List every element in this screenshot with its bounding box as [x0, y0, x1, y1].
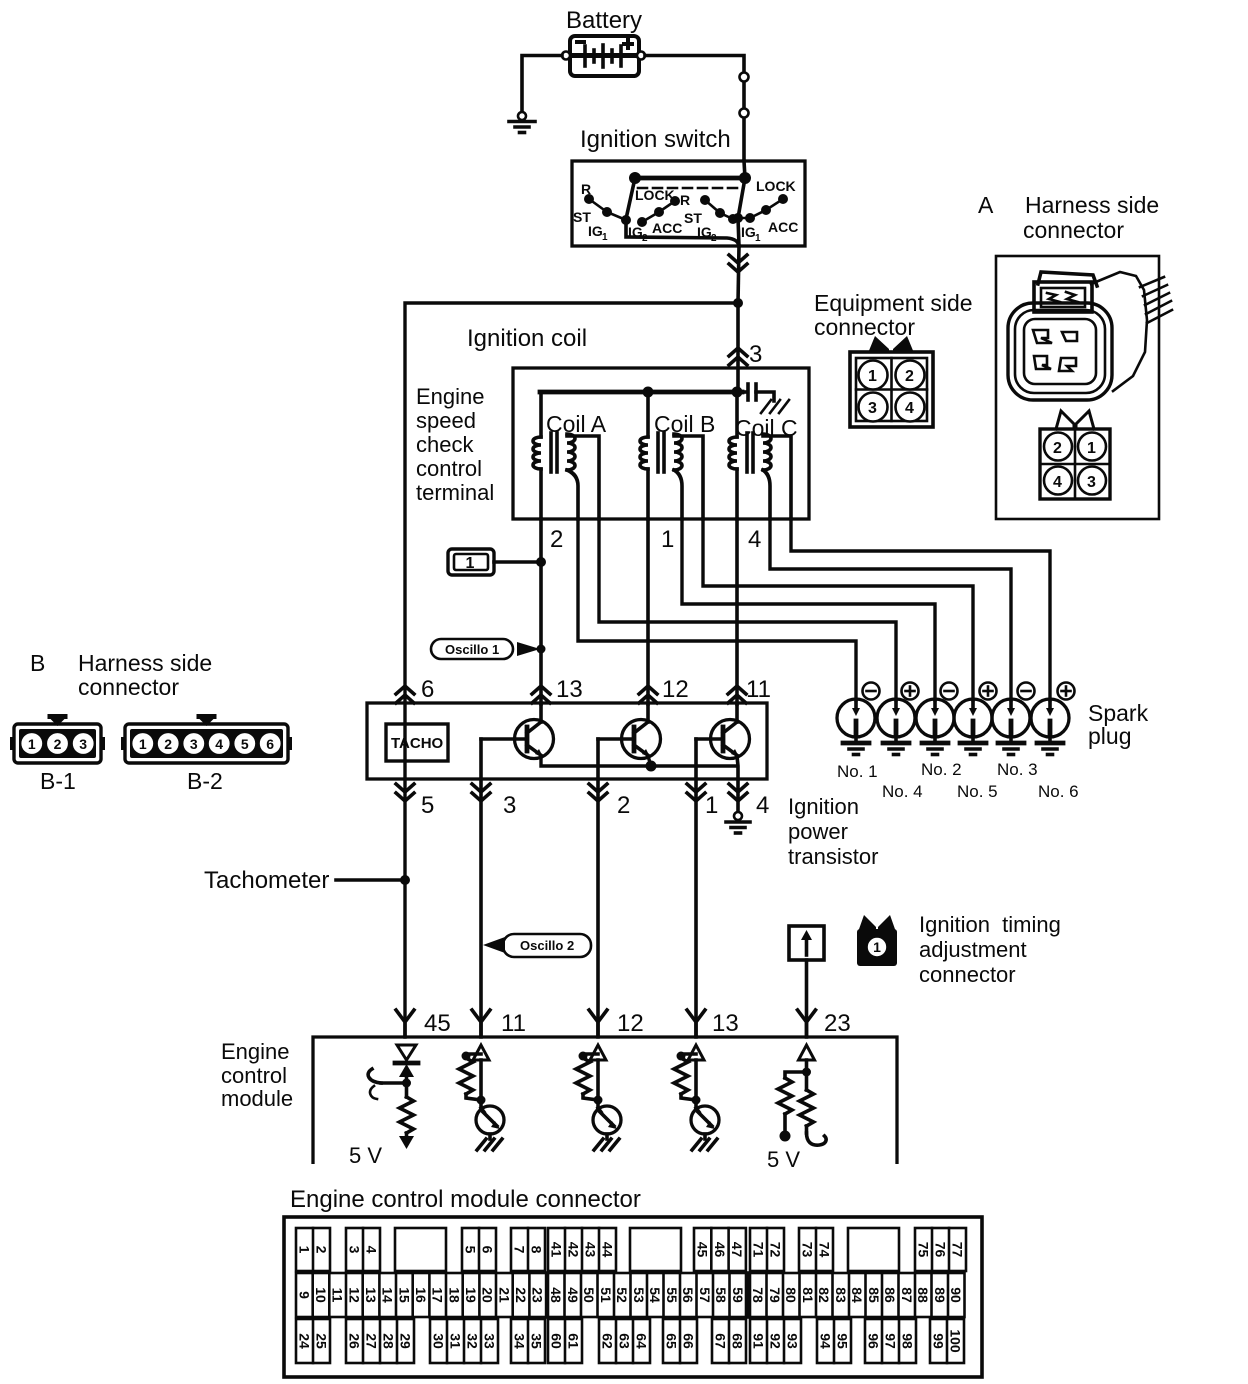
svg-text:5 V: 5 V	[349, 1143, 382, 1168]
svg-text:59: 59	[730, 1287, 746, 1303]
svg-text:Engine: Engine	[416, 384, 485, 409]
svg-text:4: 4	[748, 526, 761, 553]
svg-text:ACC: ACC	[652, 220, 682, 236]
wire coil secondary to spark plug No.2	[682, 519, 935, 700]
ignition power transistor box	[367, 703, 767, 779]
svg-text:81: 81	[800, 1287, 816, 1303]
svg-text:97: 97	[883, 1333, 899, 1349]
svg-text:4: 4	[756, 792, 769, 819]
connector chevrons pin 3	[472, 784, 490, 801]
svg-text:63: 63	[617, 1333, 633, 1349]
svg-text:6: 6	[480, 1246, 496, 1254]
B-2 label	[187, 768, 223, 794]
ignition coil label	[467, 325, 587, 352]
svg-text:85: 85	[866, 1287, 882, 1303]
svg-text:4: 4	[215, 736, 223, 752]
svg-text:32: 32	[465, 1333, 481, 1349]
svg-text:Engine: Engine	[221, 1039, 290, 1064]
svg-text:52: 52	[614, 1287, 630, 1303]
connector chevrons pin 4	[729, 784, 747, 801]
wire battery positive to ignition switch	[645, 56, 744, 161]
node emitter junction	[646, 761, 657, 772]
svg-text:99: 99	[931, 1333, 947, 1349]
svg-text:1: 1	[1087, 440, 1096, 457]
svg-text:80: 80	[783, 1287, 799, 1303]
svg-text:Battery: Battery	[566, 7, 642, 34]
svg-text:Coil A: Coil A	[546, 411, 607, 437]
wire Q2 collector	[646, 704, 650, 722]
svg-text:55: 55	[664, 1287, 680, 1303]
svg-text:84: 84	[849, 1287, 865, 1303]
oscillo 1 test point	[431, 639, 546, 659]
svg-text:2: 2	[550, 526, 563, 553]
coil pin 2 label	[550, 526, 563, 553]
wire timing connector to ECM pin 23	[805, 960, 809, 1037]
svg-text:64: 64	[634, 1333, 650, 1349]
svg-text:18: 18	[446, 1287, 462, 1303]
svg-text:1: 1	[466, 555, 475, 572]
svg-text:11: 11	[501, 1010, 526, 1037]
svg-text:4: 4	[1053, 474, 1062, 491]
svg-text:23: 23	[824, 1010, 851, 1037]
svg-text:power: power	[788, 819, 848, 844]
svg-text:56: 56	[680, 1287, 696, 1303]
pin 3 label	[749, 341, 762, 368]
wire switch to ignition coil	[736, 303, 740, 392]
svg-text:IG: IG	[697, 224, 712, 240]
wire coil secondary to spark plug No.1	[578, 519, 856, 700]
svg-text:61: 61	[566, 1333, 582, 1349]
svg-text:43: 43	[583, 1242, 599, 1258]
svg-text:28: 28	[381, 1333, 397, 1349]
wire base pin 3 down	[479, 739, 483, 1037]
svg-text:3: 3	[503, 792, 516, 819]
spark plug No. 6 label	[1038, 782, 1079, 801]
pin 2 label	[617, 792, 630, 819]
pin 6 label	[421, 676, 434, 703]
svg-text:2: 2	[711, 233, 717, 244]
svg-text:13: 13	[363, 1287, 379, 1303]
wire coil secondary to spark plug No.6	[791, 519, 1050, 700]
svg-text:12: 12	[662, 676, 689, 703]
polarity mark No. 5	[980, 683, 997, 700]
svg-text:54: 54	[647, 1287, 663, 1303]
svg-text:48: 48	[548, 1287, 564, 1303]
svg-text:96: 96	[866, 1333, 882, 1349]
spark plug No. 3	[992, 699, 1030, 755]
svg-text:4: 4	[905, 400, 914, 417]
svg-text:25: 25	[314, 1333, 330, 1349]
svg-text:No. 6: No. 6	[1038, 782, 1079, 801]
battery B1	[570, 36, 639, 76]
primary supply bus inside coil box	[540, 387, 743, 398]
svg-text:13: 13	[556, 676, 583, 703]
svg-text:14: 14	[380, 1287, 396, 1303]
pin 13 label	[556, 676, 583, 703]
capacitor C1	[742, 384, 774, 401]
svg-text:R: R	[581, 181, 591, 197]
svg-text:53: 53	[631, 1287, 647, 1303]
connector chevrons pin 1	[687, 784, 705, 801]
ECM pin 23 input circuit	[778, 1045, 826, 1145]
svg-text:A: A	[978, 192, 994, 218]
spark plug No. 5	[954, 699, 992, 755]
svg-text:29: 29	[398, 1333, 414, 1349]
svg-text:3: 3	[749, 341, 762, 368]
svg-text:100: 100	[948, 1329, 964, 1353]
svg-text:17: 17	[430, 1287, 446, 1303]
spark plug label	[1088, 700, 1149, 749]
ECM pin 12 label	[617, 1010, 644, 1037]
svg-text:72: 72	[768, 1242, 784, 1258]
connector chevrons pin 13 top	[532, 686, 550, 703]
svg-text:57: 57	[697, 1287, 713, 1303]
ignition switch contacts	[584, 194, 788, 227]
ECM driver circuit at pin 481	[459, 1045, 504, 1150]
battery negative terminal	[562, 52, 570, 60]
svg-text:2: 2	[642, 233, 648, 244]
svg-text:No. 5: No. 5	[957, 782, 998, 801]
transformer Coil A	[533, 392, 599, 519]
pin 12 label	[662, 676, 689, 703]
wire coil A pin 2 to transistor	[539, 519, 543, 704]
ground at battery	[509, 112, 535, 133]
svg-text:44: 44	[600, 1242, 616, 1258]
svg-text:1: 1	[602, 232, 608, 243]
svg-text:49: 49	[565, 1287, 581, 1303]
connector chevrons pin 6 top	[396, 686, 414, 703]
wire coil C pin 4 to transistor	[735, 519, 739, 704]
5V supply label right	[767, 1147, 800, 1172]
connector B-1	[10, 714, 105, 763]
svg-text:1: 1	[868, 368, 877, 385]
pin 11 label	[746, 676, 771, 703]
B harness side connector label	[30, 650, 212, 700]
svg-text:3: 3	[347, 1246, 363, 1254]
engine speed check control terminal label	[416, 384, 494, 505]
spark plug No. 4	[877, 699, 915, 755]
svg-text:79: 79	[767, 1287, 783, 1303]
coil pin 1 label	[661, 526, 674, 553]
svg-text:Harness side: Harness side	[78, 650, 212, 676]
svg-text:4: 4	[364, 1246, 380, 1254]
ignition switch battery feed bar	[629, 172, 751, 184]
svg-text:68: 68	[730, 1333, 746, 1349]
ECM driver circuit at pin 696	[674, 1045, 719, 1150]
svg-text:95: 95	[835, 1333, 851, 1349]
svg-text:10: 10	[313, 1287, 329, 1303]
emitter bus	[541, 756, 737, 766]
svg-text:speed: speed	[416, 408, 476, 433]
svg-text:terminal: terminal	[416, 480, 494, 505]
svg-text:51: 51	[598, 1287, 614, 1303]
ignition coil box	[513, 368, 809, 519]
svg-text:Tachometer: Tachometer	[204, 867, 329, 894]
wire battery negative to ground	[522, 56, 562, 114]
svg-text:98: 98	[900, 1333, 916, 1349]
pin 1 label	[705, 792, 718, 819]
engine control module connector box	[284, 1217, 982, 1377]
spark plug No. 1	[837, 699, 875, 755]
svg-text:module: module	[221, 1086, 293, 1111]
svg-text:66: 66	[681, 1333, 697, 1349]
spark plug No. 4 label	[882, 782, 923, 801]
svg-text:B: B	[30, 650, 45, 676]
connector B-2	[121, 714, 292, 763]
svg-text:Oscillo 1: Oscillo 1	[445, 642, 499, 657]
svg-text:12: 12	[346, 1287, 362, 1303]
TACHO unit	[386, 724, 448, 761]
svg-text:5: 5	[421, 792, 434, 819]
svg-text:2: 2	[617, 792, 630, 819]
svg-text:71: 71	[751, 1242, 767, 1258]
connector chevrons pin 3	[729, 348, 747, 365]
svg-text:62: 62	[600, 1333, 616, 1349]
5V supply label left	[349, 1143, 382, 1168]
ECM pin 13 label	[712, 1010, 739, 1037]
svg-text:connector: connector	[1023, 217, 1124, 243]
svg-text:Equipment side: Equipment side	[814, 290, 973, 316]
svg-text:77: 77	[950, 1242, 966, 1258]
svg-text:88: 88	[915, 1287, 931, 1303]
spark plug No. 1 label	[837, 762, 878, 781]
ECM driver circuit at pin 598	[576, 1045, 621, 1150]
ECM pin 23 fork	[798, 1010, 816, 1036]
svg-text:82: 82	[816, 1287, 832, 1303]
wire ignition switch output	[738, 246, 739, 303]
svg-text:74: 74	[817, 1242, 833, 1258]
svg-text:46: 46	[712, 1242, 728, 1258]
svg-text:transistor: transistor	[788, 844, 878, 869]
ignition switch dashed lock line	[638, 187, 742, 190]
svg-text:50: 50	[581, 1287, 597, 1303]
svg-text:Harness side: Harness side	[1025, 192, 1159, 218]
svg-text:No. 3: No. 3	[997, 760, 1038, 779]
svg-text:3: 3	[79, 736, 87, 752]
node at check terminal tap	[536, 557, 546, 567]
svg-text:IG: IG	[628, 224, 643, 240]
B-1 label	[40, 768, 76, 794]
svg-text:connector: connector	[919, 962, 1016, 987]
ECM pin 45 input circuit	[368, 1045, 418, 1149]
A connector pin face	[1040, 411, 1110, 499]
wire coil secondary to spark plug No.4	[599, 519, 896, 700]
svg-text:60: 60	[549, 1333, 565, 1349]
equipment side connector label	[814, 290, 973, 340]
battery positive terminal	[637, 52, 645, 60]
svg-text:5: 5	[463, 1246, 479, 1254]
svg-text:89: 89	[932, 1287, 948, 1303]
svg-text:9: 9	[296, 1291, 312, 1299]
svg-text:33: 33	[482, 1333, 498, 1349]
svg-text:1: 1	[28, 736, 36, 752]
svg-text:7: 7	[512, 1246, 528, 1254]
svg-text:ACC: ACC	[768, 219, 798, 235]
svg-text:20: 20	[480, 1287, 496, 1303]
ECM pin 45 label	[424, 1010, 451, 1037]
ignition timing adjustment connector label	[919, 912, 1061, 987]
svg-text:67: 67	[713, 1333, 729, 1349]
svg-text:16: 16	[413, 1287, 429, 1303]
wire coil B pin 1 to transistor	[646, 519, 650, 704]
svg-text:41: 41	[549, 1242, 565, 1258]
check terminal connector 1	[448, 549, 494, 575]
A harness side connector label	[978, 192, 1159, 243]
svg-text:connector: connector	[814, 314, 915, 340]
transformer Coil B	[640, 392, 703, 519]
svg-text:connector: connector	[78, 674, 179, 700]
ignition switch label	[580, 126, 731, 153]
wire tacho down (part of tach line)	[0, 0, 1, 1]
A harness connector panel	[996, 256, 1159, 519]
oscillo 2 test point	[483, 934, 591, 957]
ignition coil Coil B label	[654, 411, 715, 437]
connector chevrons pin 2	[589, 784, 607, 801]
timing adjustment terminal box with arrow	[789, 926, 824, 960]
svg-text:1: 1	[139, 736, 147, 752]
ECM connector middle row cells	[296, 1273, 546, 1317]
svg-text:19: 19	[463, 1287, 479, 1303]
svg-text:No. 2: No. 2	[921, 760, 962, 779]
svg-text:1: 1	[661, 526, 674, 553]
svg-text:45: 45	[695, 1242, 711, 1258]
svg-text:plug: plug	[1088, 723, 1131, 749]
svg-text:22: 22	[513, 1287, 529, 1303]
svg-text:27: 27	[364, 1333, 380, 1349]
svg-text:12: 12	[617, 1010, 644, 1037]
svg-text:26: 26	[347, 1333, 363, 1349]
spark plug No. 2	[916, 699, 954, 755]
spark plug No. 2 label	[921, 760, 962, 779]
svg-text:2: 2	[1053, 440, 1062, 457]
svg-text:47: 47	[729, 1242, 745, 1258]
engine control module connector label	[290, 1186, 641, 1213]
svg-text:IG: IG	[741, 224, 756, 240]
svg-text:92: 92	[768, 1333, 784, 1349]
polarity mark No. 6	[1058, 683, 1075, 700]
svg-text:control: control	[416, 456, 482, 481]
svg-text:check: check	[416, 432, 474, 457]
svg-text:3: 3	[868, 400, 877, 417]
ignition switch position labels	[573, 178, 798, 244]
ECM pin 45 fork	[396, 1010, 414, 1036]
svg-text:Ignition timing: Ignition timing	[919, 912, 1061, 937]
svg-text:LOCK: LOCK	[635, 187, 675, 203]
ECM connector top row cells	[296, 1228, 330, 1271]
svg-text:91: 91	[751, 1333, 767, 1349]
svg-text:87: 87	[899, 1287, 915, 1303]
wire Q1 collector	[539, 704, 543, 722]
svg-text:13: 13	[712, 1010, 739, 1037]
pin 3 label	[503, 792, 516, 819]
wire coil secondary to spark plug No.3	[770, 519, 1011, 700]
connector chevrons pin 11 top	[728, 686, 746, 703]
timing adjustment connector icon	[857, 915, 897, 966]
svg-text:8: 8	[529, 1246, 545, 1254]
wire coil secondary to spark plug No.5	[703, 519, 973, 700]
polarity mark No. 3	[1018, 683, 1035, 700]
ignition switch inner contact frame	[626, 178, 739, 246]
ignition switch feed wire through	[738, 161, 745, 246]
svg-text:5: 5	[241, 736, 249, 752]
svg-text:24: 24	[297, 1333, 313, 1349]
ignition switch SW1 box	[572, 161, 805, 246]
svg-text:21: 21	[496, 1287, 512, 1303]
svg-text:45: 45	[424, 1010, 451, 1037]
wire base pin 2 down	[596, 739, 600, 1037]
transistor Q3	[696, 720, 750, 759]
svg-text:control: control	[221, 1063, 287, 1088]
ECM pin 23 label	[824, 1010, 851, 1037]
svg-text:Ignition: Ignition	[788, 794, 859, 819]
svg-text:5 V: 5 V	[767, 1147, 800, 1172]
ignition coil Coil A label	[546, 411, 607, 437]
wire bus to tachometer branch	[405, 303, 738, 1037]
tachometer label	[204, 867, 329, 894]
engine control module label	[221, 1039, 293, 1111]
A connector housing drawing	[1008, 272, 1172, 400]
polarity mark No. 1	[863, 683, 880, 700]
svg-text:6: 6	[421, 676, 434, 703]
svg-text:2: 2	[905, 368, 914, 385]
wire tachometer tap	[336, 878, 405, 882]
connector chevrons pin 12 top	[639, 686, 657, 703]
svg-text:76: 76	[933, 1242, 949, 1258]
svg-text:TACHO: TACHO	[391, 735, 444, 752]
svg-text:Engine control module connecto: Engine control module connector	[290, 1186, 641, 1213]
wire Q3 emitter to ground	[737, 756, 738, 813]
svg-text:34: 34	[512, 1333, 528, 1349]
svg-text:3: 3	[1087, 474, 1096, 491]
ground at power transistor	[726, 812, 750, 833]
wire base pin 1 down	[694, 739, 698, 1037]
battery B1 label	[566, 7, 642, 34]
svg-text:83: 83	[833, 1287, 849, 1303]
equipment side connector	[850, 336, 933, 427]
ECM pin 11 label	[501, 1010, 526, 1037]
spark plug No. 3 label	[997, 760, 1038, 779]
pin 5 label	[421, 792, 434, 819]
svg-text:78: 78	[750, 1287, 766, 1303]
coil pin 4 label	[748, 526, 761, 553]
svg-text:86: 86	[882, 1287, 898, 1303]
spark plug No. 5 label	[957, 782, 998, 801]
ECM pin 11 fork	[472, 1010, 490, 1036]
ECM connector bottom row cells	[296, 1319, 330, 1363]
ignition coil Coil C label	[735, 415, 798, 441]
svg-text:31: 31	[448, 1333, 464, 1349]
connector chevrons pin 5	[396, 784, 414, 801]
svg-text:R: R	[680, 192, 690, 208]
ground at capacitor	[761, 400, 789, 413]
svg-text:1: 1	[705, 792, 718, 819]
pin 4 label	[756, 792, 769, 819]
svg-text:3: 3	[190, 736, 198, 752]
polarity mark No. 2	[941, 683, 958, 700]
svg-text:Ignition switch: Ignition switch	[580, 126, 731, 153]
svg-text:Oscillo 2: Oscillo 2	[520, 938, 574, 953]
svg-text:No. 1: No. 1	[837, 762, 878, 781]
svg-text:11: 11	[746, 676, 771, 703]
svg-text:6: 6	[266, 736, 274, 752]
svg-text:IG: IG	[588, 223, 603, 239]
svg-text:73: 73	[800, 1242, 816, 1258]
connector chevrons below switch	[729, 255, 747, 272]
ECM pin 12 fork	[589, 1010, 607, 1036]
svg-text:1: 1	[755, 233, 761, 244]
svg-text:LOCK: LOCK	[756, 178, 796, 194]
inline connector circles on wire	[740, 73, 749, 118]
